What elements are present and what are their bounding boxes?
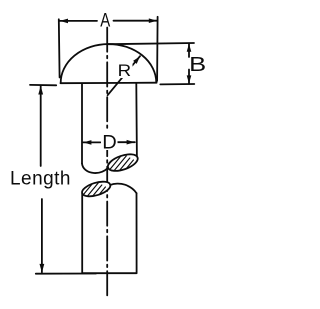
shank upper-right edge xyxy=(135,84,138,159)
head base line xyxy=(61,82,157,85)
dim B up arrowhead xyxy=(187,44,192,52)
dim B down arrowhead xyxy=(187,75,192,83)
dim B line lower segment xyxy=(188,70,190,84)
rivet head dome xyxy=(61,44,157,83)
lower piece top hump xyxy=(110,184,136,194)
Length up arrowhead xyxy=(38,86,43,95)
dim A right arrowhead xyxy=(149,18,157,23)
lower break ellipse xyxy=(80,179,112,199)
dim A left arrowhead xyxy=(60,19,68,24)
centerline xyxy=(106,28,108,297)
Length top extension line xyxy=(30,84,56,86)
Length down arrowhead xyxy=(40,264,45,273)
svg-text:D: D xyxy=(102,132,117,153)
svg-text:Length: Length xyxy=(10,169,71,190)
svg-text:R: R xyxy=(118,61,132,80)
dim D line right segment xyxy=(118,141,135,143)
shank bottom edge xyxy=(82,272,136,274)
radius leader arrowhead xyxy=(133,56,140,64)
upper break S-curve xyxy=(82,164,108,174)
dim B bottom extension line xyxy=(160,83,194,85)
dim B line upper segment xyxy=(188,44,190,57)
Length bottom extension line xyxy=(36,273,96,275)
shank lower-right edge xyxy=(136,193,138,272)
dim A right extension line xyxy=(156,17,159,81)
upper break ellipse xyxy=(106,151,140,174)
dim B top extension line xyxy=(108,43,194,44)
Length dim line lower segment xyxy=(41,199,43,272)
dim A left extension line xyxy=(58,19,61,77)
Length dim line upper segment xyxy=(40,86,42,166)
dim D line left segment xyxy=(83,141,100,143)
radius leader line xyxy=(108,56,140,95)
dim A line right segment xyxy=(114,20,158,22)
white mask under R label xyxy=(117,62,133,79)
svg-text:B: B xyxy=(189,53,206,76)
shank upper-left edge xyxy=(81,84,83,164)
svg-text:A: A xyxy=(100,10,110,31)
shank lower-left edge xyxy=(81,194,83,273)
dim D right arrowhead xyxy=(127,140,135,145)
dim D left arrowhead xyxy=(83,140,91,145)
dim A line left segment xyxy=(60,20,97,22)
white mask under D label xyxy=(101,131,118,151)
lower break hatching xyxy=(77,179,113,208)
upper break hatching xyxy=(105,152,144,183)
